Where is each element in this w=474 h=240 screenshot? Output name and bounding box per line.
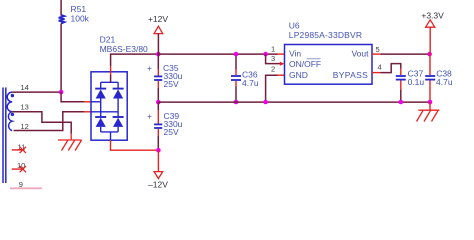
svg-text:+3.3V: +3.3V xyxy=(421,11,444,21)
diode D-botright xyxy=(113,116,124,118)
pin 10 no-connect xyxy=(12,166,26,172)
wire +12V feed to U6 pin1 xyxy=(158,53,277,55)
node Vout junction xyxy=(427,52,432,57)
wire U6 BYPASS to C37 xyxy=(372,72,381,74)
diode D-topright xyxy=(113,88,124,90)
bridge rectifier D21 xyxy=(91,35,148,141)
svg-text:14: 14 xyxy=(21,83,29,92)
transformer winding 13-12 xyxy=(8,112,14,131)
transformer winding 14-13 xyxy=(7,92,14,112)
diode D-botleft xyxy=(95,116,106,118)
svg-text:BYPASS: BYPASS xyxy=(333,70,369,80)
AC2 internal wire xyxy=(91,111,118,113)
svg-text:1: 1 xyxy=(271,44,275,53)
wire U6 GND to ground rail xyxy=(266,75,278,102)
resistor R51 xyxy=(59,0,90,92)
node C36 bottom xyxy=(234,100,239,105)
wire pin13 to ground xyxy=(12,112,71,134)
ground rail (bottom) xyxy=(158,101,430,103)
bottom bus xyxy=(101,131,118,133)
svg-text:4: 4 xyxy=(378,62,382,71)
node C37 bottom xyxy=(399,100,404,105)
svg-text:13: 13 xyxy=(21,103,29,112)
svg-text:+: + xyxy=(147,111,152,121)
capacitor C35 xyxy=(147,54,183,102)
svg-text:2: 2 xyxy=(271,64,275,73)
node -12V junction xyxy=(156,148,161,153)
wire bridge + output to +12V rail xyxy=(111,54,159,66)
ground (transformer center tap) xyxy=(58,140,82,151)
svg-text:MB6S-E3/80: MB6S-E3/80 xyxy=(100,44,148,54)
svg-text:3: 3 xyxy=(271,54,275,63)
power -12V symbol xyxy=(148,150,168,189)
svg-text:25V: 25V xyxy=(164,127,179,137)
node C38 bottom / ground junction xyxy=(428,100,433,105)
svg-text:5: 5 xyxy=(376,45,380,54)
capacitor C38 xyxy=(425,54,453,102)
transformer T (core) xyxy=(3,88,6,184)
wire pin3 tap xyxy=(266,54,281,64)
svg-text:12: 12 xyxy=(21,122,29,131)
op-amp regulator U6 xyxy=(285,21,373,85)
node U6 pin1 junction xyxy=(263,52,268,57)
node C35/C39/ground-rail junction xyxy=(156,100,161,105)
node C36 top xyxy=(234,52,239,57)
power +3.3V symbol xyxy=(421,11,444,55)
svg-text:+: + xyxy=(147,63,152,73)
svg-text:4.7u: 4.7u xyxy=(242,78,259,88)
wire bridge - output to -12V junction xyxy=(111,140,159,150)
svg-text:+12V: +12V xyxy=(148,14,168,24)
svg-text:LP2985A-33DBVR: LP2985A-33DBVR xyxy=(289,30,362,40)
top bus xyxy=(101,81,118,83)
capacitor C36 xyxy=(231,54,259,102)
power +12V symbol xyxy=(148,14,168,54)
svg-text:100k: 100k xyxy=(71,14,90,24)
node U6 GND junction xyxy=(263,100,268,105)
pin 11 no-connect xyxy=(12,147,26,153)
node +12V junction xyxy=(156,52,161,57)
svg-text:ON/OFF: ON/OFF xyxy=(289,59,321,69)
wire pin12 to bridge AC2 xyxy=(14,112,84,131)
pin 9 stub (faint) xyxy=(10,187,42,189)
wire U6 Vout to +3.3V rail xyxy=(372,53,381,55)
svg-text:Vout: Vout xyxy=(351,49,369,59)
svg-text:4.7u: 4.7u xyxy=(436,77,453,87)
pin3 arrow xyxy=(280,62,285,66)
node junction R51/pin14 xyxy=(59,90,64,95)
wire pin14 to junction xyxy=(12,91,61,93)
AC1 internal stub xyxy=(91,101,101,103)
ground (right, output) xyxy=(417,102,440,122)
svg-text:GND: GND xyxy=(289,70,308,80)
diode D-topleft xyxy=(95,88,106,90)
capacitor C39 xyxy=(147,102,183,150)
svg-text:0.1u: 0.1u xyxy=(408,77,425,87)
svg-text:25V: 25V xyxy=(164,79,179,89)
svg-text:–12V: –12V xyxy=(148,180,168,190)
svg-text:Vin: Vin xyxy=(289,49,301,59)
capacitor C37 xyxy=(396,69,425,103)
wire junction to bridge AC1 xyxy=(61,92,84,102)
